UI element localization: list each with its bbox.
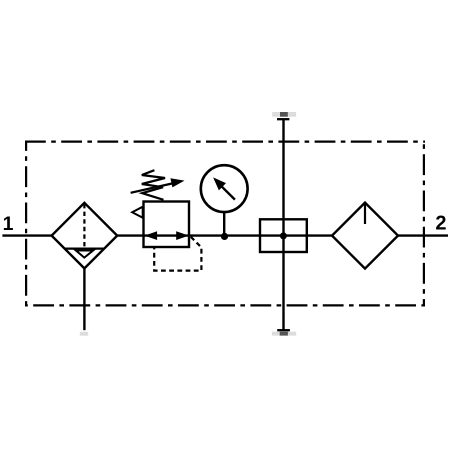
svg-text:2: 2: [435, 213, 446, 235]
regulator R1 adjustment arrow: [131, 184, 172, 193]
enclosure border (dash-dot assembly frame): [25, 141, 425, 307]
pressure gauge G1 dial (circle): [201, 165, 248, 212]
filter/water separator F1 body (diamond): [52, 203, 118, 269]
wire: vertical valve branch line: [282, 119, 284, 331]
regulator R1 flow arrowhead left: [145, 231, 158, 240]
lubricator L1 oil pin: [364, 204, 366, 225]
wire: main pneumatic line port 1 to port 2: [2, 234, 448, 236]
exhaust silencer bottom (light gray with dark center): [272, 332, 296, 336]
regulator R1 relief vent triangle: [132, 207, 143, 218]
drain outlet mark (light gray): [80, 332, 88, 336]
filter F1 element (dashed center line): [83, 204, 85, 247]
exhaust bottom T-bar: [277, 329, 290, 331]
valve V1 body (rectangle): [260, 219, 307, 252]
lubricator L1 body (diamond): [332, 203, 398, 269]
pressure gauge G1 stem: [223, 212, 225, 237]
regulator R1 flow arrowhead right: [176, 231, 189, 240]
exhaust top T-bar: [277, 118, 289, 120]
filter F1 drain indicator (small triangle): [76, 251, 93, 258]
regulator R1 adjustment spring (zigzag): [142, 170, 165, 200]
exhaust silencer top (light gray with dark center): [272, 112, 296, 117]
filter F1 separator chord: [64, 248, 104, 250]
node: gauge junction dot: [221, 233, 228, 240]
regulator R1 pilot feedback line (dashed): [154, 237, 201, 271]
node: valve center junction dot: [280, 232, 287, 239]
pressure gauge G1 needle: [222, 187, 235, 200]
wire: condensate drain line: [83, 268, 85, 330]
svg-text:1: 1: [3, 213, 14, 235]
regulator R1 body (square): [144, 202, 190, 248]
